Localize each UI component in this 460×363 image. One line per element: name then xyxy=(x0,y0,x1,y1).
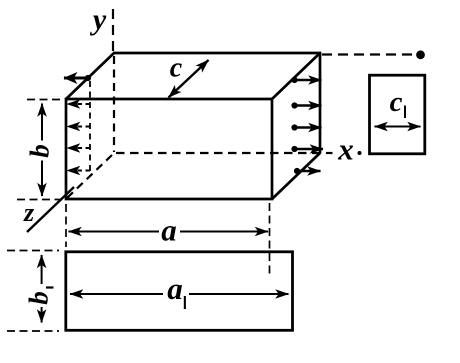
x axis dot xyxy=(358,151,362,155)
hidden bottom-left edge xyxy=(67,155,112,198)
top-left slant edge xyxy=(66,53,114,99)
right field arrow row 4 xyxy=(291,146,323,152)
small tube rectangle xyxy=(370,75,425,154)
top-right slant edge xyxy=(272,53,320,99)
b1 extension bottom xyxy=(7,330,59,332)
a1 dimension arrow right xyxy=(189,293,289,295)
c double arrow xyxy=(169,60,209,98)
right field arrow row 3 xyxy=(291,124,321,130)
label c1 xyxy=(390,86,406,118)
back top edge xyxy=(113,52,321,55)
b1 dimension arrow lower xyxy=(41,307,43,323)
left field arrow row 3 xyxy=(67,126,90,128)
svg-text:c: c xyxy=(390,86,403,118)
svg-text:z: z xyxy=(23,198,35,227)
label a1 xyxy=(167,271,186,309)
right field arrow row 5 xyxy=(294,168,321,174)
b dimension arrow upper xyxy=(41,104,43,141)
z axis xyxy=(27,187,74,232)
a extension left xyxy=(65,204,67,247)
left wall field mid line xyxy=(89,81,91,174)
back right edge xyxy=(319,53,322,154)
hidden back bottom edge xyxy=(116,152,319,154)
c1 double arrow xyxy=(375,126,421,128)
end dot xyxy=(416,50,425,59)
bottom-right slant edge xyxy=(272,153,320,199)
b dimension arrow lower xyxy=(41,161,43,197)
svg-text:x: x xyxy=(337,132,354,167)
left field arrow row 1 (bold, on edge) xyxy=(64,75,91,81)
y axis xyxy=(112,9,114,52)
left field arrow row 5 xyxy=(67,170,90,172)
svg-text:b: b xyxy=(25,144,55,158)
hidden back-left edge xyxy=(113,56,115,152)
left field arrow row 2 xyxy=(67,103,90,105)
svg-text:c: c xyxy=(170,53,183,84)
svg-text:a: a xyxy=(167,271,183,306)
x axis xyxy=(326,152,333,154)
a extension right xyxy=(269,203,271,278)
svg-text:y: y xyxy=(90,3,107,36)
a1 dimension arrow left xyxy=(70,293,163,295)
waveguide box front face xyxy=(66,99,272,199)
svg-text:b: b xyxy=(24,291,54,305)
svg-text:a: a xyxy=(161,213,177,248)
left field arrow row 4 xyxy=(67,147,90,149)
b1 extension top xyxy=(7,250,59,252)
right field arrow row 2 xyxy=(291,102,321,108)
plate rectangle xyxy=(66,252,293,330)
b extension bottom xyxy=(17,199,62,201)
b extension top xyxy=(27,99,62,101)
a dimension arrow left xyxy=(69,231,160,233)
b1 dimension arrow upper xyxy=(41,255,43,284)
right field arrow row 1 xyxy=(291,77,321,83)
a dimension arrow right xyxy=(180,231,268,233)
top dashed line to dot xyxy=(322,53,413,55)
